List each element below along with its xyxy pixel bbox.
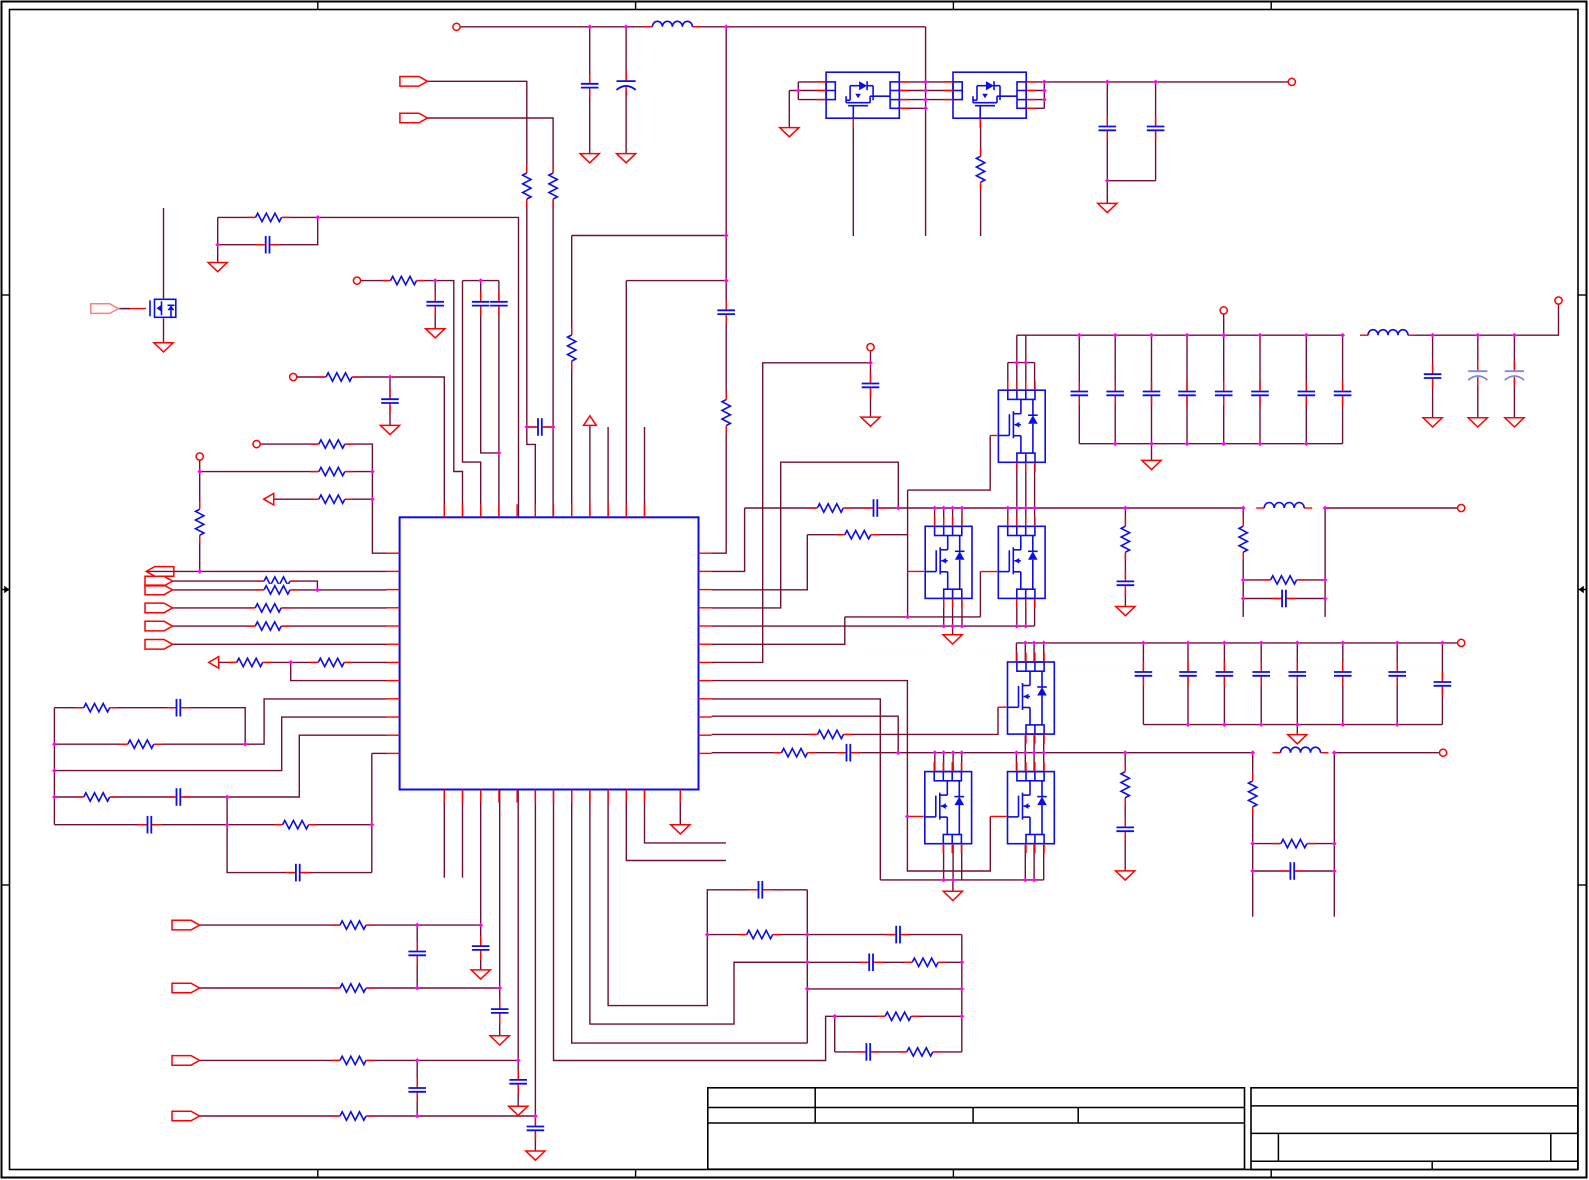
- node fb1 d: [1323, 596, 1328, 601]
- node rcv b: [959, 987, 964, 992]
- wire cap bridge: [527, 426, 553, 428]
- node rail508 m3: [950, 506, 955, 511]
- wire row571: [146, 570, 386, 572]
- capacitor C_bank2_2: [1215, 671, 1234, 678]
- resistor R_626: [254, 620, 282, 632]
- wire ind2 right v: [1333, 753, 1335, 917]
- port flag F_1060: [172, 1056, 200, 1066]
- node rc962: [805, 960, 810, 965]
- node t357: [433, 278, 438, 283]
- fet gate wire: [122, 308, 146, 310]
- wire ind1 left v: [1242, 508, 1244, 617]
- wire rc row934: [707, 934, 962, 936]
- node bank1 b5: [1258, 441, 1263, 446]
- wire bank1 bottom rail: [1079, 443, 1342, 445]
- node rail642 c7: [1395, 641, 1400, 646]
- wire rail508: [745, 507, 1244, 509]
- gate up2 red stub: [998, 706, 1008, 708]
- capacitor C_bank2_3: [1252, 671, 1271, 678]
- wire row1116: [200, 1115, 536, 1117]
- wire bank2 cap wire 3: [1260, 643, 1262, 725]
- wire mC bot stub 2: [961, 843, 963, 880]
- wire bank2 cap wire 4: [1296, 643, 1298, 725]
- wire row662: [219, 661, 387, 663]
- wire bank2 cap wire 0: [1142, 643, 1144, 725]
- port flag F_B: [400, 113, 428, 123]
- wire rail752: [712, 752, 1253, 754]
- transistor module M_D: [1007, 771, 1056, 845]
- node mesh b: [52, 768, 57, 773]
- node top rail a: [587, 24, 592, 29]
- wire top rail: [460, 26, 925, 28]
- wire row534: [807, 534, 907, 536]
- wire row581: [173, 581, 318, 590]
- capacitor C_bank1_2: [1142, 390, 1161, 397]
- wire term870 net: [870, 351, 872, 363]
- resistor R_1243: [1237, 525, 1249, 553]
- node rail335 o2: [1475, 333, 1480, 338]
- wire fb1 divider: [1124, 508, 1126, 579]
- polarized capacitor C_out3: [1505, 370, 1525, 379]
- wire bank2 cap wire 6: [1396, 643, 1398, 725]
- wire fb1 row598: [1243, 598, 1325, 600]
- port flag F_571: [146, 567, 174, 577]
- wire mC top stub 2: [952, 753, 954, 772]
- gateA red stub: [908, 570, 926, 572]
- transistor module M_up1: [997, 389, 1046, 463]
- wire rail335b: [1412, 304, 1559, 335]
- wire pin589 route: [590, 790, 807, 1025]
- terminal T_1439: [1440, 749, 1447, 756]
- node bank2 b3: [1259, 722, 1264, 727]
- wire feed pin T571: [571, 236, 573, 518]
- wire rc v807: [806, 890, 808, 1043]
- node fb1 b: [1323, 578, 1328, 583]
- node rail335 c2: [1113, 333, 1118, 338]
- node row589: [315, 588, 320, 593]
- node rail752 m2: [941, 750, 946, 755]
- node f1060 a: [415, 1058, 420, 1063]
- node rail626 b: [950, 624, 955, 629]
- wire mesh row797: [54, 735, 386, 797]
- resistor R_726: [720, 399, 732, 427]
- ground G_870: [861, 417, 880, 426]
- port flag F_581: [145, 576, 173, 586]
- border center arrows: [2, 589, 10, 591]
- resistor R_962: [911, 956, 939, 968]
- wire cap C1 branch: [589, 27, 591, 154]
- node gnd879 c: [1023, 878, 1028, 883]
- node tmid 1: [923, 80, 928, 85]
- ground G_fb1: [1116, 607, 1135, 616]
- wire rc v834: [834, 1016, 836, 1052]
- ground G_480: [471, 970, 490, 979]
- node bank1 b2: [1149, 441, 1154, 446]
- node rail752 m1: [932, 750, 937, 755]
- wire mup1 bot stub 0: [1016, 462, 1018, 508]
- node rail642 c5: [1295, 641, 1300, 646]
- capacitor C_1155: [1146, 125, 1165, 132]
- node row616: [905, 615, 910, 620]
- resistor R_m707: [83, 702, 111, 714]
- node mesh d: [243, 742, 248, 747]
- wire row988: [200, 987, 500, 989]
- wire mD top stub 1: [1024, 753, 1026, 772]
- node mesh e: [225, 795, 230, 800]
- capacitor C_518: [509, 1078, 528, 1085]
- node outcap b: [1153, 80, 1158, 85]
- inductor L_508: [1263, 506, 1305, 511]
- node rail642 c8: [1440, 641, 1445, 646]
- resistor R_843: [1280, 838, 1308, 850]
- node bank2 b5: [1340, 722, 1345, 727]
- wire row734: [712, 707, 998, 734]
- node rc217: [315, 215, 320, 220]
- wire feed481: [481, 281, 499, 453]
- port flag F_1116: [172, 1111, 200, 1121]
- port flag F_A: [400, 77, 428, 87]
- node row499: [370, 497, 375, 502]
- wire out1 cap wire 1: [1477, 335, 1479, 418]
- node row471b: [370, 469, 375, 474]
- resistor R_1116: [339, 1110, 367, 1122]
- wire seg463-499: [463, 280, 499, 282]
- node outcap c: [1105, 178, 1110, 183]
- wire fb2 gnd link: [1124, 834, 1126, 871]
- capacitor C_bank2_4: [1288, 671, 1307, 678]
- node mesh c: [52, 795, 57, 800]
- capacitor C_934: [895, 925, 902, 944]
- wire mD bot stub 2: [1043, 843, 1045, 880]
- wire pin626 stub: [626, 790, 726, 861]
- polarized capacitor C_out2: [1468, 370, 1488, 379]
- node term870: [868, 360, 873, 365]
- ground G_589: [580, 154, 599, 163]
- node jog499: [497, 451, 502, 456]
- wire bank2 last cap wire: [1441, 643, 1443, 725]
- capacitor C_bank2_6: [1388, 671, 1407, 678]
- wire feed pin T626: [625, 281, 627, 518]
- wire feed499: [498, 281, 500, 518]
- node f1116 a: [415, 1114, 420, 1119]
- resistor R_553: [547, 172, 559, 200]
- node rail626 e: [1023, 624, 1028, 629]
- resistor R_499: [318, 493, 346, 505]
- wire t mid row90: [899, 90, 953, 92]
- wire row925: [200, 924, 481, 926]
- node rail508 L1: [1241, 506, 1246, 511]
- node r377: [388, 375, 393, 380]
- wire cap1107 gnd: [1106, 181, 1108, 204]
- wire cap535 stem: [534, 1116, 536, 1151]
- wire v907: [907, 490, 909, 617]
- wire cap1155 v: [1155, 82, 1157, 181]
- wire rc v961: [961, 935, 963, 1052]
- wire mesh row707: [54, 708, 245, 745]
- ground G_out2: [1468, 418, 1487, 427]
- node fb1 c: [1241, 596, 1246, 601]
- capacitor C_fb2: [1116, 826, 1135, 833]
- wire mesh row744: [54, 699, 386, 744]
- wire ind2 left v: [1252, 753, 1254, 917]
- node rail626 a: [941, 624, 946, 629]
- wire mup1 bot stub 1: [1025, 462, 1027, 508]
- node rail508 m2: [941, 506, 946, 511]
- wire mC bot stub 0: [943, 843, 945, 880]
- wire cap435 branch: [434, 281, 436, 329]
- resistor R_934: [746, 929, 774, 941]
- port flag F_925: [172, 920, 200, 930]
- node rc244: [215, 242, 220, 247]
- wire cap499 stem: [499, 988, 501, 1036]
- node f1060 b: [516, 1058, 521, 1063]
- wire rail508b: [1325, 507, 1457, 509]
- transistor module M_A: [924, 525, 973, 599]
- wire row534 drop: [712, 535, 808, 590]
- ground G_390: [380, 425, 399, 434]
- terminal T_1457: [1458, 504, 1465, 511]
- node rail752 L1: [1250, 750, 1255, 755]
- ground G_217: [208, 263, 227, 272]
- wire fb2 row871: [1253, 870, 1335, 872]
- capacitor C_bank1_3: [1178, 390, 1197, 397]
- wire row644: [173, 643, 387, 645]
- wire bank1 cap wire 1: [1114, 335, 1116, 444]
- wire mup2 top stub 2: [1033, 643, 1035, 662]
- wire row616: [845, 616, 981, 618]
- ground G_680: [671, 825, 690, 834]
- wire mD top stub 0: [1015, 753, 1017, 772]
- transistor module M_B: [997, 525, 1046, 599]
- node top rail b: [624, 24, 629, 29]
- wire t2 right row90: [1026, 90, 1044, 92]
- capacitor C_435: [426, 300, 445, 307]
- wire bank2 cap wire 5: [1342, 643, 1344, 725]
- resistor R_589: [263, 584, 291, 596]
- terminal T_870: [867, 344, 874, 351]
- node row471: [197, 469, 202, 474]
- wire mB top stub 2: [1025, 508, 1027, 526]
- port flag F_626: [145, 621, 173, 631]
- wire mB top stub 0: [1007, 508, 1009, 526]
- node bank1 b4: [1221, 441, 1226, 446]
- node rail642 c4: [1259, 641, 1264, 646]
- resistor R_217: [255, 211, 283, 223]
- capacitor C_417a: [408, 950, 427, 957]
- wire pwr stem: [589, 425, 591, 517]
- wire bank2 cap wire 2: [1223, 643, 1225, 725]
- resistor R_fb2: [1119, 771, 1131, 799]
- wire row471b: [200, 471, 373, 473]
- capacitor C_871: [1289, 862, 1296, 881]
- node rail752 m6: [1023, 750, 1028, 755]
- capacitor C_598: [1281, 589, 1288, 608]
- node t2r 1: [1042, 80, 1047, 85]
- node rail335 c3: [1149, 333, 1154, 338]
- wire bank2 gnd stem: [1296, 725, 1298, 735]
- wire gnd626 stem: [952, 626, 954, 635]
- node gnd879 a: [941, 878, 946, 883]
- wire mup2 bot stub 0: [1024, 735, 1026, 753]
- transistor Q_left: [149, 298, 182, 318]
- ground G_435: [426, 329, 445, 338]
- wire mup1 top stub 2: [1025, 363, 1027, 391]
- terminal T_1223: [1220, 307, 1227, 314]
- capacitor C_870: [861, 382, 880, 389]
- node rail642 c1: [1141, 641, 1146, 646]
- node bank2 b2: [1222, 722, 1227, 727]
- wire row616 right: [979, 572, 981, 617]
- capacitor C_244: [264, 235, 271, 254]
- node tmid 2: [923, 88, 928, 93]
- capacitor C_bank1_6: [1297, 390, 1316, 397]
- wire t mid row81: [899, 81, 953, 83]
- capacitor C_bridge: [537, 418, 544, 437]
- capacitor C_bank1_4: [1214, 390, 1233, 397]
- wire flag A feed: [427, 81, 535, 517]
- wire mA top stub 2: [952, 508, 954, 526]
- terminal T_293: [290, 373, 297, 380]
- resistor R_m824: [282, 819, 310, 831]
- wire bank1 cap wire 6: [1305, 335, 1307, 444]
- wire bare644: [644, 427, 646, 517]
- wire term357 net: [361, 281, 463, 518]
- wire mB bot stub 0: [1016, 598, 1018, 626]
- node rail335 t: [1221, 333, 1226, 338]
- resistor R_571t: [566, 334, 578, 362]
- port flag F_gate: [91, 304, 119, 314]
- wire mup2 bot stub 2: [1043, 735, 1045, 753]
- terminal T_256: [253, 441, 260, 448]
- terminal T_456: [453, 23, 460, 30]
- capacitor C_499: [489, 300, 508, 307]
- transistor module M_up2: [1007, 661, 1056, 735]
- wire row444: [260, 444, 386, 553]
- resistor R_662a: [236, 656, 264, 668]
- node f925 b: [478, 923, 483, 928]
- node t2r 3: [1042, 97, 1047, 102]
- ground G_fet: [154, 343, 173, 352]
- polarized capacitor C_P1: [616, 79, 636, 88]
- wire fet drain: [163, 208, 165, 299]
- resistor R_579: [1270, 574, 1298, 586]
- wire v880 gnd: [712, 699, 881, 880]
- node bank1 b3: [1185, 441, 1190, 446]
- wire gate1 riser: [908, 436, 991, 491]
- wire riser898b: [712, 716, 899, 753]
- node rc1016: [832, 1014, 837, 1019]
- wire t1 gnd v: [788, 91, 790, 128]
- wire rail642: [1016, 642, 1457, 644]
- wire pin608 route: [608, 790, 807, 1006]
- node fb2 c: [1250, 869, 1255, 874]
- input arrow A_662: [209, 657, 219, 669]
- wire mA bot stub 2: [961, 598, 963, 626]
- wire mup1 rail link a: [1016, 335, 1018, 362]
- resistor R_444: [318, 438, 346, 450]
- wire mD bot stub 1: [1033, 843, 1035, 880]
- wire rc row962: [734, 961, 962, 963]
- capacitor C_m797: [175, 788, 182, 807]
- wire t2 bottom stub: [980, 118, 982, 236]
- resistor R_1252: [1247, 780, 1259, 808]
- resistor R_471: [318, 466, 346, 478]
- IC U1: [400, 517, 699, 789]
- ground G_518: [509, 1106, 528, 1115]
- node tmid 3: [923, 97, 928, 102]
- resistor R_1051: [906, 1046, 934, 1058]
- node rail626 c: [960, 624, 965, 629]
- wire pin571 route: [572, 790, 808, 1044]
- node rail508 fb: [1123, 506, 1128, 511]
- capacitor C_m824: [146, 815, 153, 834]
- resistor R_662b: [317, 656, 345, 668]
- wire bare608: [607, 427, 609, 517]
- node top rail c: [724, 24, 729, 29]
- node rcv a: [959, 960, 964, 965]
- resistor R_988: [339, 982, 367, 994]
- capacitor C_bank2_5: [1333, 671, 1352, 678]
- wire t1 left v: [797, 82, 799, 100]
- wire v744: [712, 508, 745, 571]
- capacitor C_out1: [1423, 373, 1442, 380]
- node rail752 m8: [1041, 750, 1046, 755]
- wire t2 right row99: [1026, 99, 1044, 101]
- node rail626 d: [1014, 624, 1019, 629]
- wire row589: [173, 589, 387, 591]
- wire mD top stub 2: [1033, 753, 1035, 772]
- wire fb1 row579: [1243, 579, 1325, 581]
- wire out1 cap wire 2: [1513, 335, 1515, 418]
- wire t1 left row81: [798, 81, 826, 83]
- resistor R_fb1: [1119, 525, 1131, 553]
- wire gnd rail879: [880, 879, 1043, 881]
- wire rc row988: [807, 988, 962, 990]
- wire t1 left row99: [798, 99, 826, 101]
- wire pin517 drop: [517, 790, 519, 1061]
- node rail642 c6: [1340, 641, 1345, 646]
- wire mup2 top stub 3: [1043, 643, 1045, 662]
- capacitor C_bank2_7: [1433, 681, 1452, 688]
- input arrow A_499: [264, 493, 274, 505]
- terminal T_1558: [1555, 297, 1562, 304]
- node outcap a: [1105, 80, 1110, 85]
- wire mA bot stub 1: [952, 598, 954, 626]
- wire fb2 row843: [1253, 843, 1335, 845]
- wire vertical feed x726: [712, 27, 727, 553]
- wire pin535 drop: [534, 790, 536, 1117]
- port flag F_988: [172, 983, 200, 993]
- wire RC top: [218, 217, 519, 517]
- wire bank1 cap wire 3: [1186, 335, 1188, 444]
- wire mup2 top stub 1: [1024, 643, 1026, 662]
- wire cap480 stem: [480, 925, 482, 970]
- wire mC top stub 1: [943, 753, 945, 772]
- node rail642 s3: [1041, 641, 1046, 646]
- wire mesh v227: [227, 797, 372, 873]
- wire mesh left rail: [53, 708, 55, 825]
- resistor R_m797: [83, 791, 111, 803]
- wire mesh v371: [371, 753, 373, 872]
- capacitor C_499b: [490, 1008, 509, 1015]
- node gate mC: [905, 814, 910, 819]
- wire bank1 cap wire 5: [1259, 335, 1261, 444]
- capacitor C_1107: [1098, 125, 1117, 132]
- node bank2 b1: [1186, 722, 1191, 727]
- node rail508 m4: [960, 506, 965, 511]
- node f1116 b: [533, 1114, 538, 1119]
- wire mC top stub 0: [934, 753, 936, 772]
